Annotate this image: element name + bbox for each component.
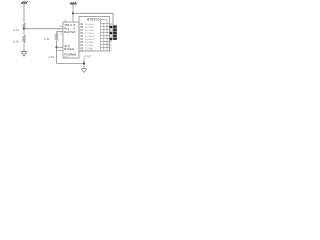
svg-text:RxD TxD: RxD TxD <box>64 30 75 34</box>
wire IC pin to R3 (corner) <box>57 32 64 33</box>
wire VCC rail to right bus <box>73 13 113 40</box>
U1 pin rows: numbers <box>80 23 83 53</box>
ground (arrow, bottom) <box>83 62 85 64</box>
wire node B to IC pin <box>57 46 64 48</box>
resistor R3 1.2k <box>55 33 58 41</box>
wire IC GND pin down <box>83 58 85 64</box>
wire R3 down to node B <box>56 41 58 64</box>
wire bottom run to GND junction <box>57 63 85 65</box>
svg-text:P0.1/AD1: P0.1/AD1 <box>85 26 95 29</box>
pin stub XTAL1 <box>60 25 64 27</box>
svg-text:P0.6/AD6: P0.6/AD6 <box>85 41 95 44</box>
IC U1 AT89S51 box <box>79 17 110 52</box>
node C (junction dot) <box>72 12 74 14</box>
svg-text:P0.7/AD7: P0.7/AD7 <box>85 44 95 47</box>
wire VCC to R1 <box>23 3 25 23</box>
svg-text:Psc: Psc <box>64 26 69 30</box>
svg-text:AT89S51: AT89S51 <box>87 18 102 22</box>
svg-text:P0.5/AD5: P0.5/AD5 <box>85 38 95 41</box>
svg-text:31: 31 <box>51 55 55 59</box>
svg-text:P0.3/AD3: P0.3/AD3 <box>85 32 95 35</box>
wire second pin stub <box>57 49 64 51</box>
node A (junction dot) <box>23 28 25 30</box>
svg-text:AT89C: AT89C <box>84 55 92 59</box>
U1 right pin stubs <box>110 24 113 51</box>
svg-text:P0.0/AD0: P0.0/AD0 <box>85 23 95 26</box>
resistor R2 2.2k <box>23 35 26 43</box>
svg-text:1.2k: 1.2k <box>44 37 50 41</box>
header pins (right column) <box>113 25 117 40</box>
pin stub top (P1.0 up) <box>65 20 67 22</box>
svg-text:Rst/Adj: Rst/Adj <box>64 47 74 51</box>
ground (arrow) <box>21 52 26 57</box>
pin stub P3 <box>60 33 63 35</box>
U1 pin names <box>85 23 95 52</box>
wire VCC down to IC <box>72 4 74 22</box>
power symbol VCC (top center) <box>70 2 77 4</box>
bus junction dots (left column) <box>110 26 113 41</box>
wire node to IC RST pin <box>24 28 63 30</box>
IC U2 box (left) <box>63 22 79 58</box>
wire node down <box>23 29 25 35</box>
svg-text:P0.4/AD4: P0.4/AD4 <box>85 35 95 38</box>
wire R2 to ground <box>23 43 25 51</box>
U2 pin labels bottom <box>64 44 76 59</box>
resistor R1 4.7k <box>23 23 26 29</box>
svg-text:P3.1: P3.1 <box>64 56 69 58</box>
power symbol VCC (left) <box>21 1 28 3</box>
svg-text:P2.1/A9: P2.1/A9 <box>85 49 94 52</box>
node B (junction dot) <box>55 46 57 48</box>
U1 pin cell grid <box>101 20 110 51</box>
U2 pin labels top <box>64 23 75 34</box>
svg-text:4.7k: 4.7k <box>13 28 19 32</box>
svg-text:2.2k: 2.2k <box>13 39 19 43</box>
svg-text:P0.2/AD2: P0.2/AD2 <box>85 29 95 32</box>
